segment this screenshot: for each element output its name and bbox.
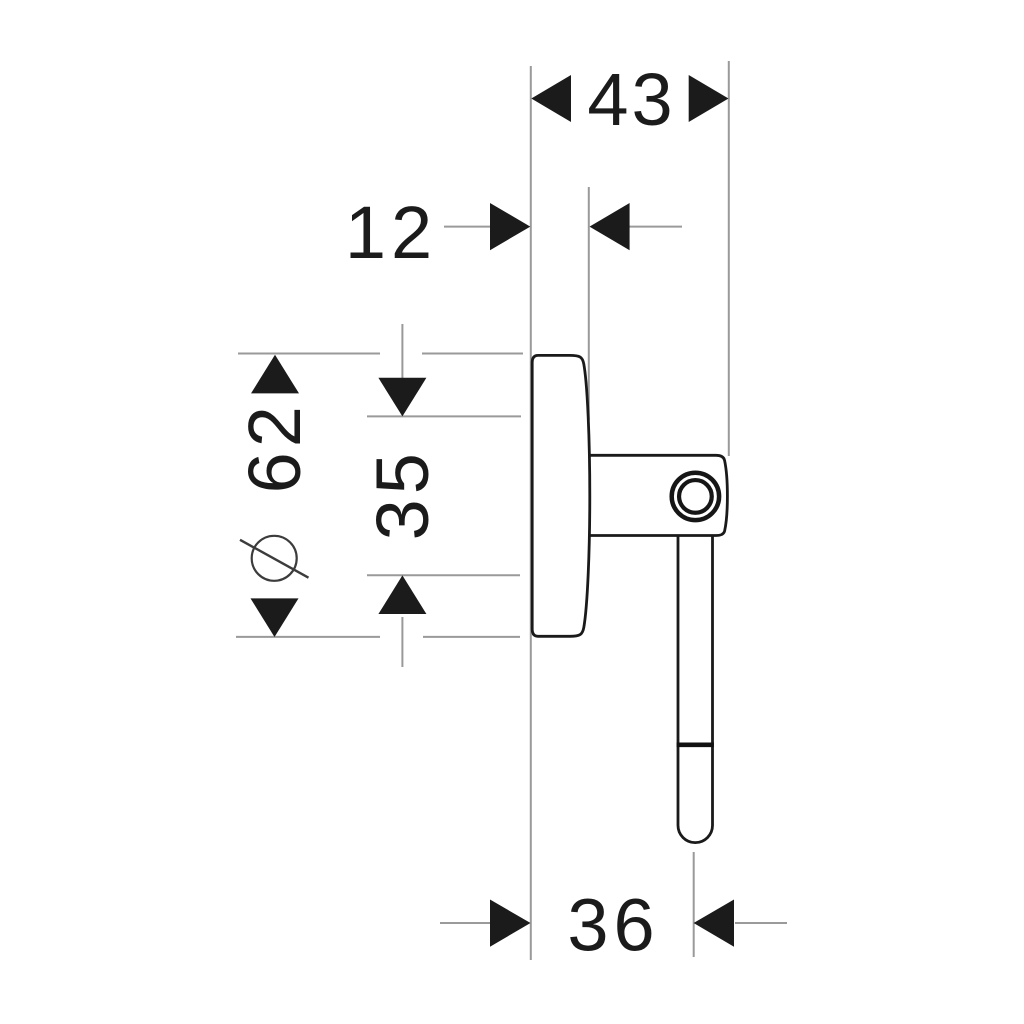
wire leader tail dim 12 right [629,226,682,228]
arrow dim 36 right [694,900,734,947]
svg-text:62: 62 [233,401,316,493]
arrow dim 62 top [251,355,299,394]
svg-text:35: 35 [361,448,444,540]
arrow dim 35 top [378,378,426,417]
wire horizontal line y=353 left of gap [238,353,380,355]
wall plate [532,355,590,636]
wire horizontal line y=575 [367,574,520,576]
diameter symbol circle [252,536,297,581]
wire horizontal line y=416 [367,415,521,417]
wire extension line right x=729 [728,61,730,456]
wire extension line x=589 for dim 12 [588,187,590,420]
wire extension line wall face x=531 [530,66,532,960]
arrow dim 12 left [490,203,530,250]
wire leader tail dim 12 left [444,226,490,228]
wire extension line rod centre x=694 [693,852,695,957]
svg-text:12: 12 [345,191,437,274]
wire dim line 35 upper segment [401,324,403,414]
arrow dim 43 left [531,75,571,122]
arrow dim 62 bottom [251,598,299,637]
wire dim line 35 lower segment [401,617,403,667]
wire horizontal line y=637 right of gap [423,636,520,638]
diameter symbol slash [240,540,309,578]
screw cap outer circle [672,473,719,520]
arrow dim 36 left [490,900,531,947]
screw cap inner circle [679,480,712,513]
wire horizontal line y=353 right of gap [422,353,523,355]
wire leader tail dim 36 right [735,922,787,924]
svg-text:43: 43 [587,58,675,141]
wire horizontal line y=637 left of gap [236,636,380,638]
svg-text:36: 36 [567,884,659,967]
rod vertical bar [678,534,713,843]
wire leader tail dim 36 left [440,922,491,924]
arrow dim 12 right [590,203,630,250]
arrow dim 43 right [689,75,729,122]
arrow dim 35 bottom [378,575,426,614]
rod joint line [677,742,714,747]
arm bracket [589,455,727,535]
